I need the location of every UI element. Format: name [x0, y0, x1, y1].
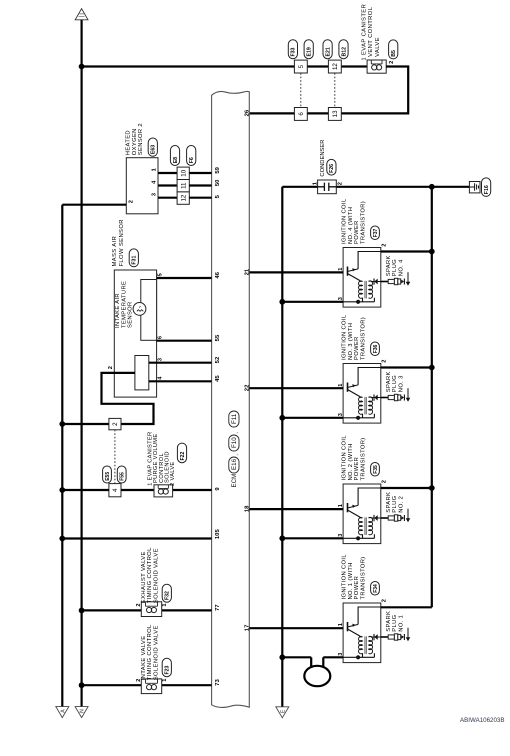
- svg-text:F33: F33: [291, 47, 297, 56]
- connector box 12 (E21/B12): [328, 60, 341, 73]
- connector F32: [162, 584, 171, 602]
- svg-text:F23: F23: [165, 665, 171, 674]
- svg-text:1: 1: [162, 603, 168, 606]
- svg-text:73: 73: [215, 679, 221, 686]
- connector F31: [129, 249, 138, 267]
- svg-text:12: 12: [180, 194, 187, 201]
- svg-text:SPARK: SPARK: [386, 611, 392, 632]
- svg-text:SENSOR: SENSOR: [128, 301, 134, 328]
- spark plug no.4: [381, 272, 411, 286]
- svg-text:SPARK: SPARK: [386, 255, 392, 276]
- ECM label: ECM (E16), (F10), (F11): [229, 411, 240, 488]
- svg-text:B12: B12: [341, 47, 347, 57]
- connector E19: [304, 40, 313, 59]
- svg-text:IGNITION COIL: IGNITION COIL: [342, 554, 348, 600]
- wire: dotted links 5-6 and 12-13: [301, 73, 335, 107]
- svg-text:F11: F11: [231, 413, 238, 424]
- svg-text:3: 3: [338, 297, 344, 300]
- svg-text:VALVE: VALVE: [375, 37, 381, 57]
- wire to ECM 59: [189, 172, 211, 174]
- ignition coil no.1 with power transistor (F34): [343, 603, 381, 663]
- ground triangle bus B: [75, 707, 88, 718]
- svg-text:F22: F22: [180, 451, 186, 460]
- svg-text:1: 1: [338, 384, 344, 387]
- svg-text:2: 2: [382, 360, 388, 363]
- EVAP canister vent control valve (B5): [367, 60, 386, 73]
- svg-text:OXYGEN: OXYGEN: [132, 128, 138, 155]
- svg-text:12: 12: [332, 63, 339, 70]
- svg-text:VENT CONTROL: VENT CONTROL: [368, 6, 374, 57]
- connector F23: [162, 658, 171, 676]
- svg-text:2: 2: [108, 366, 114, 369]
- svg-text:55: 55: [215, 334, 221, 341]
- wire to ECM 5: [189, 197, 211, 199]
- wire HO2S pin2 to bus A: [62, 204, 126, 206]
- svg-text:6: 6: [158, 336, 164, 339]
- svg-text:1: 1: [338, 504, 344, 507]
- svg-text:F32: F32: [165, 591, 171, 600]
- svg-text:3: 3: [158, 358, 164, 361]
- wire MAF pin4 to ECM 45: [149, 380, 212, 382]
- svg-text:E55: E55: [105, 472, 111, 481]
- ignition coil no.3 with power transistor (F36): [343, 364, 381, 424]
- wire box2 to bus A: [62, 423, 109, 425]
- svg-text:F37: F37: [373, 228, 379, 237]
- ignition coil no.4 with power transistor (F37): [343, 248, 381, 308]
- svg-text:59: 59: [215, 166, 221, 173]
- svg-text:1: 1: [312, 182, 318, 185]
- svg-text:3: 3: [338, 653, 344, 656]
- svg-text:77: 77: [215, 604, 221, 611]
- svg-text:CONDENSER: CONDENSER: [320, 140, 326, 177]
- wire bus A to box4 to purge valve to ECM 9: [62, 489, 109, 491]
- connector boxes 10/11/12 (E8/F6): [177, 167, 189, 179]
- svg-text:4: 4: [112, 488, 119, 492]
- condenser (F26): [318, 180, 337, 194]
- svg-text:PLUG: PLUG: [392, 495, 398, 512]
- svg-text:1: 1: [162, 679, 168, 682]
- svg-text:TRANSISTOR): TRANSISTOR): [361, 201, 367, 244]
- connector F6: [187, 146, 196, 166]
- svg-text:46: 46: [215, 271, 221, 278]
- wire: supply bus (x=431.8): [431, 187, 433, 608]
- connector box 4: [109, 484, 121, 497]
- svg-text:FLOW SENSOR: FLOW SENSOR: [119, 219, 125, 266]
- svg-text:INTAKE VALVE: INTAKE VALVE: [141, 636, 147, 681]
- svg-text:POWER: POWER: [354, 336, 360, 360]
- connector E55: [103, 466, 112, 483]
- MAF hot wire element box: [135, 356, 149, 390]
- svg-text:TIMING CONTROL: TIMING CONTROL: [147, 547, 153, 603]
- ground triangle bus A: [56, 707, 69, 718]
- connector E21: [323, 40, 332, 59]
- svg-text:,: ,: [233, 454, 240, 456]
- node: bus A / box2 line: [59, 421, 65, 427]
- svg-text:E16: E16: [231, 458, 238, 470]
- wire HO2S pin4: [158, 184, 177, 186]
- connector box 6: [294, 108, 307, 121]
- svg-text:TRANSISTOR): TRANSISTOR): [361, 556, 367, 599]
- svg-text:NO. 3: NO. 3: [398, 375, 404, 392]
- spark plug no.3: [381, 388, 411, 402]
- svg-text:ABIWA106203B: ABIWA106203B: [460, 717, 504, 724]
- svg-text:NO. 1 (WITH: NO. 1 (WITH: [348, 562, 354, 599]
- svg-text:HEATED: HEATED: [125, 130, 131, 155]
- svg-text:POWER: POWER: [354, 576, 360, 600]
- svg-text:2: 2: [382, 244, 388, 247]
- exhaust valve timing control solenoid valve (F32): [141, 602, 161, 617]
- wire coil 1 pin 3 to ground bus with loop: [282, 656, 311, 658]
- svg-text:NO. 2: NO. 2: [398, 496, 404, 513]
- wire MAF pin2 zigzag to connector box 2: [102, 373, 154, 424]
- svg-text:10: 10: [180, 169, 187, 176]
- svg-text:IGNITION COIL: IGNITION COIL: [342, 314, 348, 360]
- connector F36: [371, 342, 380, 356]
- connector box 13: [328, 108, 341, 121]
- connector F16 (condenser to ground): [469, 182, 480, 193]
- ECM box: [212, 91, 250, 707]
- svg-text:TRANSISTOR): TRANSISTOR): [361, 317, 367, 360]
- svg-text:POWER: POWER: [354, 220, 360, 244]
- heated oxygen sensor 2 (E63): [126, 158, 158, 214]
- wire: vent valve to ECM pin 26: [341, 67, 408, 114]
- svg-text:,: ,: [233, 432, 240, 434]
- svg-text:45: 45: [215, 375, 221, 382]
- svg-text:EXHAUST VALVE: EXHAUST VALVE: [141, 551, 147, 603]
- node: bus A / 105 line: [59, 536, 65, 542]
- connector F55: [117, 466, 126, 483]
- svg-text:PLUG: PLUG: [392, 259, 398, 276]
- ground triangle ground bus: [276, 707, 289, 718]
- svg-text:NO. 4: NO. 4: [398, 259, 404, 276]
- wire coil 3 pin 3 to ground bus: [282, 417, 343, 419]
- node: bus B / 73 line: [79, 682, 85, 688]
- svg-text:2: 2: [382, 599, 388, 602]
- wire: top feed line y=66.5: [82, 65, 295, 67]
- wire coil 3 pin 2 to supply bus: [381, 366, 432, 368]
- connector F33: [288, 40, 297, 59]
- wire coil 4 pin 3 to ground bus: [282, 301, 343, 303]
- svg-text:NO. 4 (WITH: NO. 4 (WITH: [348, 207, 354, 244]
- svg-text:105: 105: [215, 529, 221, 540]
- intake air temperature sensor sub-box: [141, 280, 157, 341]
- wire ground-bus top to condenser to F16: [282, 186, 317, 188]
- svg-text:E21: E21: [325, 47, 331, 56]
- svg-text:SPARK: SPARK: [386, 492, 392, 513]
- wire bus B to exhaust solenoid to ECM 77: [82, 609, 142, 611]
- svg-text:1: 1: [151, 168, 157, 171]
- wire: dotted link 2-4: [114, 430, 116, 484]
- svg-text:2: 2: [338, 182, 344, 185]
- intake valve timing control solenoid valve (F23): [141, 679, 161, 694]
- svg-text:MASS AIR: MASS AIR: [112, 236, 118, 267]
- svg-text:1: 1: [338, 623, 344, 626]
- svg-text:PLUG: PLUG: [392, 614, 398, 631]
- svg-text:PLUG: PLUG: [392, 375, 398, 392]
- wire ECM pin 17 to coil 1 pin 1: [249, 627, 343, 629]
- svg-text:E63: E63: [151, 145, 157, 154]
- svg-text:F10: F10: [231, 437, 238, 448]
- connector F35: [371, 463, 380, 477]
- wire to ECM 50: [189, 184, 211, 186]
- svg-text:IGNITION COIL: IGNITION COIL: [342, 435, 348, 481]
- svg-text:5: 5: [158, 273, 164, 276]
- node: bus B / 77 line: [79, 608, 85, 614]
- svg-text:F35: F35: [373, 465, 379, 474]
- spark plug no.2: [381, 509, 411, 523]
- svg-text:SENSOR 2: SENSOR 2: [138, 123, 144, 155]
- svg-text:1: 1: [338, 268, 344, 271]
- svg-text:SOLENOID VALVE: SOLENOID VALVE: [154, 548, 160, 603]
- svg-text:TIMING CONTROL: TIMING CONTROL: [147, 624, 153, 680]
- svg-text:E8: E8: [173, 157, 179, 163]
- svg-text:3: 3: [338, 534, 344, 537]
- EVAP canister purge volume control solenoid valve (F22): [154, 485, 173, 497]
- svg-text:2: 2: [112, 422, 119, 426]
- svg-text:NO. 1: NO. 1: [398, 615, 404, 632]
- wire MAF pin5 to ECM 46: [157, 277, 212, 279]
- svg-text:1 EVAP CANISTER: 1 EVAP CANISTER: [362, 4, 368, 61]
- wire bus B to intake solenoid to ECM 73: [82, 684, 142, 686]
- svg-text:F55: F55: [120, 472, 126, 481]
- wire coil 1 pin 2 to supply bus: [381, 606, 432, 608]
- spark plug no.1: [381, 628, 411, 642]
- node: junction bus B / top feed: [79, 64, 85, 70]
- connector F22: [177, 443, 186, 463]
- svg-text:5: 5: [298, 64, 305, 68]
- svg-text:ECM: ECM: [231, 474, 238, 488]
- wire bus A to ECM 105: [62, 537, 211, 539]
- wire HO2S pin3: [158, 197, 177, 199]
- svg-text:2: 2: [389, 61, 395, 64]
- svg-text:F34: F34: [373, 584, 379, 593]
- svg-text:F16: F16: [484, 185, 490, 194]
- connector F34: [371, 582, 380, 596]
- wire: left bus B (x=81.6): [80, 20, 82, 707]
- svg-text:6: 6: [298, 112, 305, 116]
- connector B5: [389, 40, 398, 59]
- svg-text:B5: B5: [391, 50, 397, 57]
- connector E8: [170, 146, 179, 166]
- node: right bus / condenser line: [429, 184, 435, 190]
- svg-text:11: 11: [180, 182, 187, 189]
- svg-text:TRANSISTOR): TRANSISTOR): [361, 437, 367, 480]
- connector F26: [327, 159, 336, 175]
- svg-text:F26: F26: [329, 164, 335, 173]
- svg-text:26: 26: [244, 109, 250, 116]
- connector E63: [148, 138, 157, 156]
- svg-text:POWER: POWER: [354, 457, 360, 481]
- node: bus A / purge line: [59, 487, 65, 493]
- thermistor symbol: [133, 303, 146, 316]
- svg-text:F31: F31: [132, 256, 138, 265]
- wire MAF pin6 to ECM 55: [157, 340, 212, 342]
- svg-text:3: 3: [151, 193, 157, 196]
- page reference triangle top: [75, 9, 88, 20]
- svg-text:F6: F6: [189, 157, 195, 163]
- svg-text:TEMPERATURE: TEMPERATURE: [121, 281, 127, 328]
- svg-text:52: 52: [215, 356, 221, 363]
- svg-text:F36: F36: [373, 344, 379, 353]
- svg-text:2: 2: [382, 480, 388, 483]
- svg-text:IGNITION COIL: IGNITION COIL: [342, 198, 348, 244]
- svg-text:NO. 3 (WITH: NO. 3 (WITH: [348, 323, 354, 360]
- wire HO2S pin1: [158, 172, 177, 174]
- connector box 2: [109, 418, 121, 429]
- svg-text:13: 13: [332, 110, 339, 117]
- svg-text:SPARK: SPARK: [386, 371, 392, 392]
- connector F37: [371, 226, 380, 240]
- svg-text:NO. 2 (WITH: NO. 2 (WITH: [348, 443, 354, 480]
- connector box 5 (F33/E19): [294, 60, 307, 73]
- svg-text:INTAKE AIR: INTAKE AIR: [115, 293, 121, 328]
- connector B12: [339, 40, 348, 59]
- wire: left bus A (x=62.3): [61, 205, 63, 707]
- wire MAF pin3 to ECM 52: [149, 362, 212, 364]
- svg-text:3: 3: [338, 413, 344, 416]
- wire ECM pin 22 to coil 3 pin 1: [249, 387, 343, 389]
- svg-text:50: 50: [215, 179, 221, 186]
- svg-text:2 VALVE: 2 VALVE: [170, 461, 176, 485]
- svg-text:2: 2: [129, 200, 135, 203]
- mass air flow sensor (F31): [114, 270, 156, 397]
- svg-text:E19: E19: [307, 47, 313, 56]
- svg-text:SOLENOID VALVE: SOLENOID VALVE: [154, 625, 160, 680]
- wire ECM pin 18 to coil 2 pin 1: [249, 508, 343, 510]
- svg-text:N: N: [80, 709, 86, 713]
- wire ECM pin 21 to coil 4 pin 1: [249, 271, 343, 273]
- wire coil 4 pin 2 to supply bus: [381, 250, 432, 252]
- wire coil 2 pin 2 to supply bus: [381, 487, 432, 489]
- ignition coil no.2 with power transistor (F35): [343, 484, 381, 544]
- wire: ground bus (x=282.3): [281, 187, 283, 707]
- wire coil 2 pin 3 to ground bus: [282, 537, 343, 539]
